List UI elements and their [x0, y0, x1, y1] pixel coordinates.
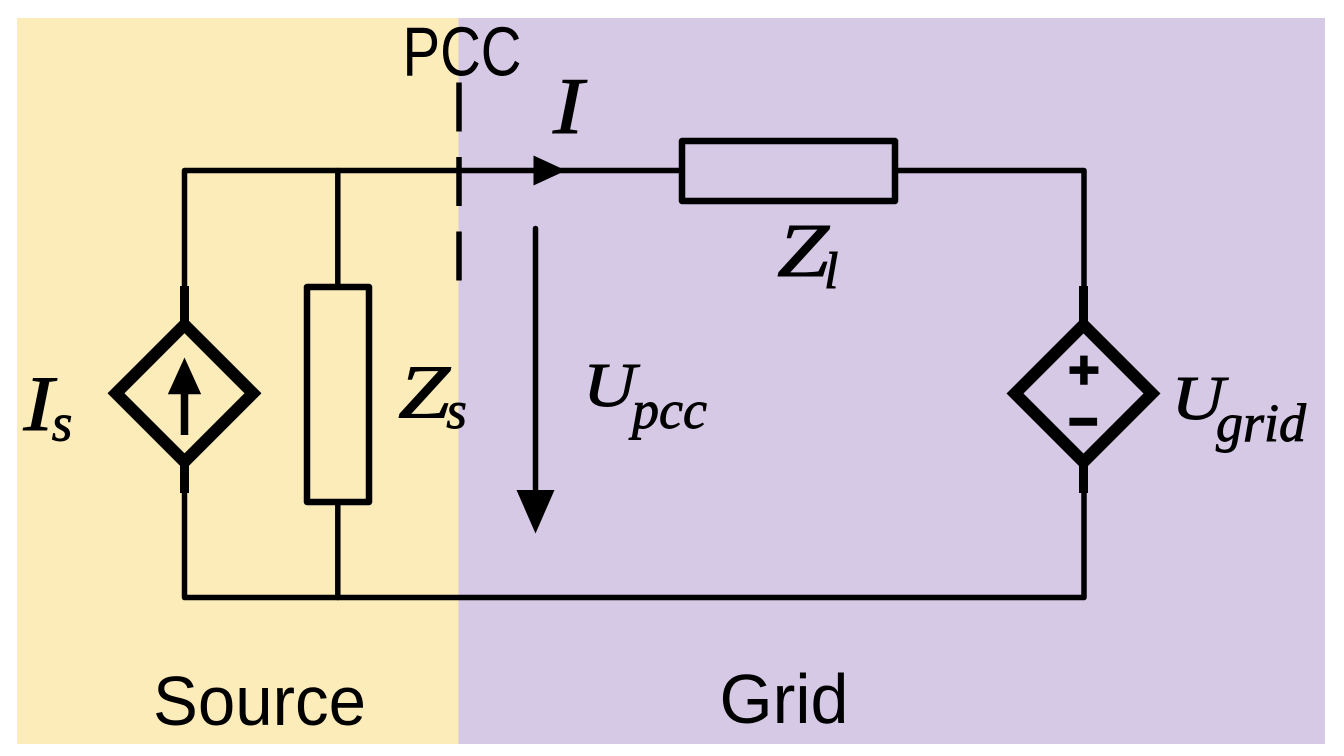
- wire: Zs branch top: [335, 171, 341, 288]
- voltage source Ugrid: lead stub top: [1079, 286, 1088, 330]
- svg-text:pcc: pcc: [628, 380, 707, 440]
- current arrow I on top rail: [534, 156, 567, 186]
- PCC dashed boundary line: [456, 83, 462, 281]
- svg-text:Grid: Grid: [720, 660, 849, 738]
- current source Is: lead stub top: [180, 286, 189, 330]
- wire: bottom rail: [185, 470, 1085, 598]
- wire: top rail left (node PCC): [185, 171, 683, 321]
- current source Is: lead stub bottom: [180, 456, 189, 493]
- current source Is: arrow head: [168, 358, 201, 395]
- current source Is: arrow shaft: [181, 393, 189, 435]
- voltage source Ugrid: lead stub bottom: [1079, 456, 1088, 493]
- svg-text:grid: grid: [1216, 393, 1307, 453]
- source region background: [17, 18, 459, 744]
- svg-text:I: I: [552, 63, 587, 151]
- svg-text:l: l: [824, 243, 838, 300]
- voltage source Ugrid: minus sign: [1069, 418, 1097, 426]
- voltage arrow Upcc: shaft: [533, 229, 539, 499]
- impedance Zl (rectangle): [682, 141, 895, 201]
- svg-text:Z: Z: [398, 351, 451, 435]
- wire: Zs branch bottom: [335, 502, 341, 598]
- voltage source Ugrid: plus sign: [1070, 356, 1099, 385]
- impedance Zs (rectangle): [307, 287, 369, 502]
- svg-text:Source: Source: [153, 662, 366, 740]
- wire: top rail right: [895, 171, 1084, 321]
- svg-text:Z: Z: [777, 209, 830, 293]
- current source Is: diamond: [116, 325, 253, 462]
- voltage source Ugrid: diamond: [1015, 325, 1152, 462]
- svg-text:s: s: [446, 382, 467, 440]
- grid region background: [459, 18, 1326, 744]
- voltage arrow Upcc: head: [517, 490, 555, 534]
- svg-text:s: s: [52, 395, 73, 453]
- svg-text:PCC: PCC: [403, 13, 522, 91]
